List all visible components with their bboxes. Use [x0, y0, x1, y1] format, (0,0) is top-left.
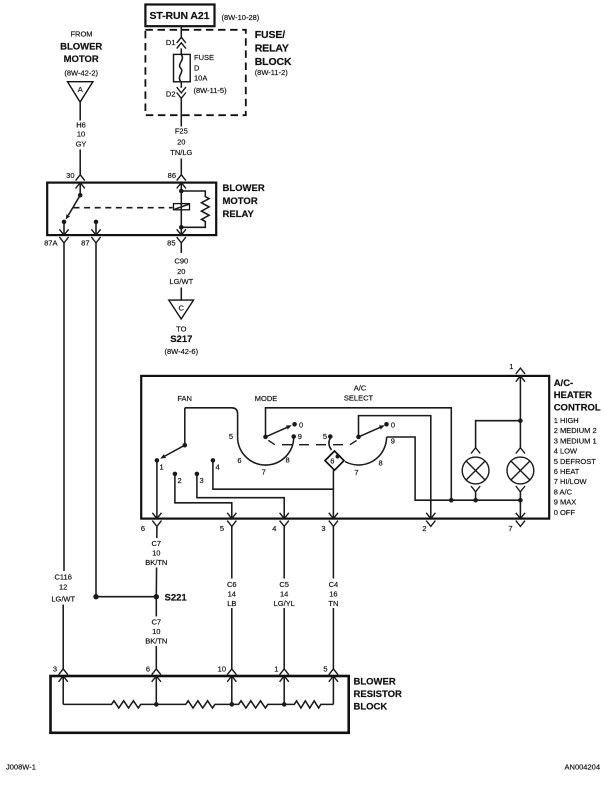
- svg-text:87: 87: [81, 238, 89, 247]
- svg-text:20: 20: [177, 137, 185, 146]
- svg-text:C6: C6: [227, 580, 237, 589]
- svg-text:0: 0: [391, 420, 395, 429]
- svg-text:AN004204: AN004204: [565, 763, 600, 772]
- svg-text:F25: F25: [175, 127, 188, 136]
- svg-text:2 MEDIUM 2: 2 MEDIUM 2: [554, 426, 597, 435]
- svg-text:LG/WT: LG/WT: [51, 594, 75, 603]
- svg-text:14: 14: [228, 590, 236, 599]
- relay pin 87A outer: [44, 237, 68, 247]
- node 86 junction: [179, 189, 184, 194]
- wire bus to pin 7: [519, 500, 521, 518]
- label C6 14 LB: [220, 579, 244, 609]
- svg-text:87A: 87A: [44, 238, 57, 247]
- resistor pin 3: [53, 664, 68, 682]
- mode arc position labels: [229, 432, 302, 476]
- select wiper blade: [359, 425, 385, 437]
- svg-text:6 HEAT: 6 HEAT: [554, 467, 580, 476]
- resistor pin 5: [323, 664, 338, 682]
- mode contact 9: [291, 434, 296, 439]
- svg-text:5: 5: [323, 432, 327, 441]
- mode wiper blade: [266, 425, 292, 437]
- svg-text:5: 5: [220, 524, 224, 533]
- svg-text:85: 85: [167, 238, 175, 247]
- wire C116 from 87A to resistor pin 3: [62, 243, 65, 669]
- svg-text:(8W-11-2): (8W-11-2): [255, 68, 289, 77]
- svg-text:7: 7: [508, 524, 512, 533]
- relay pin 85 inner chevron: [177, 229, 186, 235]
- svg-text:1: 1: [160, 462, 164, 471]
- svg-text:14: 14: [280, 590, 288, 599]
- connector A from blower motor: [68, 82, 93, 102]
- label C116 12 LG/WT: [51, 573, 75, 604]
- svg-text:BK/TN: BK/TN: [145, 637, 167, 646]
- svg-text:6: 6: [146, 664, 150, 673]
- svg-text:C7: C7: [152, 617, 162, 626]
- relay pin 87 outer: [81, 237, 100, 247]
- wire pin 30 to switch pivot: [79, 183, 81, 196]
- mode contact 0: [292, 420, 303, 429]
- svg-text:BK/TN: BK/TN: [145, 558, 167, 567]
- node 85 junction: [179, 225, 184, 230]
- splice S221: [93, 592, 187, 603]
- blower resistor block box: [51, 676, 349, 733]
- a/c-heater control box: [141, 376, 549, 519]
- svg-text:BLOWER: BLOWER: [354, 676, 396, 687]
- wire coil to pin 85: [180, 191, 182, 235]
- svg-text:12: 12: [59, 583, 67, 592]
- wire 85 to S217: [180, 243, 182, 300]
- wire C4 pin 3 to resistor pin 5: [332, 526, 334, 669]
- svg-text:8: 8: [379, 459, 383, 468]
- svg-text:C116: C116: [55, 573, 72, 582]
- control pin 6: [141, 513, 162, 533]
- svg-text:8: 8: [286, 456, 290, 465]
- fan wiper riser: [184, 408, 186, 445]
- svg-text:TO: TO: [176, 325, 186, 334]
- svg-text:BLOCK: BLOCK: [255, 56, 292, 68]
- fan switch bar and mode arc: [185, 408, 294, 465]
- svg-text:RELAY: RELAY: [255, 42, 289, 54]
- svg-text:8 A/C: 8 A/C: [554, 487, 573, 496]
- svg-text:0 OFF: 0 OFF: [554, 508, 576, 517]
- svg-text:MOTOR: MOTOR: [223, 196, 258, 207]
- svg-text:(8W-42-2): (8W-42-2): [64, 69, 98, 78]
- svg-text:6: 6: [237, 456, 241, 465]
- svg-text:BLOWER: BLOWER: [60, 41, 102, 52]
- svg-text:1 HIGH: 1 HIGH: [554, 416, 579, 425]
- connector C to S217: [169, 300, 194, 319]
- label C90 20 LG/WT: [169, 257, 193, 287]
- relay pin 30: [66, 171, 85, 189]
- wire D2 to F25 label: [180, 98, 182, 126]
- fan contact 4: [211, 458, 220, 471]
- node fan pivot: [183, 443, 188, 448]
- resistor pin 10: [218, 664, 237, 682]
- wire fan contact 4 to pin 3: [213, 460, 334, 518]
- relay resistor: [181, 191, 209, 227]
- svg-text:FUSE/: FUSE/: [255, 29, 286, 41]
- wire TN/LG to relay pin 86: [180, 159, 182, 175]
- svg-text:H6: H6: [76, 121, 86, 130]
- relay switch blade: [66, 195, 81, 219]
- label TO S217 (8W-42-6): [164, 325, 198, 357]
- relay contact 87: [91, 220, 100, 236]
- label A/C SELECT: [344, 383, 374, 402]
- svg-text:(8W-42-6): (8W-42-6): [164, 347, 198, 356]
- select wiper riser to pin 2: [359, 416, 431, 519]
- svg-text:4: 4: [216, 462, 220, 471]
- svg-text:LB: LB: [227, 599, 236, 608]
- svg-text:2: 2: [422, 524, 426, 533]
- wire C5 pin 4 to resistor pin 1: [283, 526, 285, 669]
- svg-text:S221: S221: [165, 592, 188, 603]
- wire select 9 to lamp bus: [387, 437, 452, 500]
- label H6 10 GY: [76, 121, 87, 149]
- svg-text:10A: 10A: [194, 74, 207, 83]
- svg-text:HEATER: HEATER: [554, 390, 592, 401]
- svg-text:A/C: A/C: [354, 383, 367, 392]
- svg-text:0: 0: [299, 420, 303, 429]
- svg-text:86: 86: [168, 171, 176, 180]
- lamp 1: [462, 448, 489, 501]
- a/c select arc: [345, 437, 387, 465]
- svg-text:C7: C7: [152, 539, 162, 548]
- wire C6 pin 5 to resistor pin 10: [231, 526, 233, 669]
- svg-text:(8W-11-5): (8W-11-5): [194, 86, 228, 95]
- node lamp feed: [518, 418, 523, 423]
- svg-text:C4: C4: [329, 580, 339, 589]
- relay contact 87A: [59, 220, 68, 236]
- a/c select arc labels: [354, 436, 394, 477]
- svg-text:4: 4: [272, 524, 276, 533]
- wire pin 86 to coil: [180, 183, 182, 191]
- svg-text:3: 3: [321, 524, 325, 533]
- svg-text:LG/WT: LG/WT: [169, 277, 193, 286]
- relay coil dashed link: [74, 207, 173, 209]
- svg-text:9 MAX: 9 MAX: [554, 498, 577, 507]
- mode wiper riser and bus to lamps: [266, 408, 452, 500]
- svg-text:7: 7: [262, 467, 266, 476]
- svg-text:TN/LG: TN/LG: [170, 148, 192, 157]
- svg-text:RESISTOR: RESISTOR: [354, 689, 403, 700]
- wire pin 1 to lamps: [519, 376, 521, 448]
- svg-text:TN: TN: [328, 599, 338, 608]
- label BLOWER MOTOR RELAY: [223, 183, 265, 220]
- wire contact 5 to diamond: [329, 438, 332, 450]
- wire GY to relay pin 30: [79, 150, 81, 175]
- label F25 20 TN/LG: [170, 127, 192, 158]
- svg-text:C: C: [178, 304, 184, 313]
- wire fuse to D2: [180, 82, 182, 88]
- wire D1 to fuse: [180, 48, 182, 54]
- svg-text:RELAY: RELAY: [223, 209, 255, 220]
- connector D2: [166, 87, 186, 98]
- fan switch blade: [160, 445, 185, 458]
- svg-text:10: 10: [77, 130, 85, 139]
- node mode pivot: [263, 435, 268, 440]
- svg-text:BLOWER: BLOWER: [223, 183, 265, 194]
- control pin 3: [321, 513, 338, 533]
- svg-text:5: 5: [229, 432, 233, 441]
- label C4 16 TN: [321, 579, 345, 609]
- label C7 10 BK/TN lower: [143, 616, 170, 646]
- wire ST-RUN A21 to D1: [180, 26, 182, 37]
- svg-text:LG/YL: LG/YL: [274, 599, 295, 608]
- control pin 2: [422, 513, 435, 533]
- svg-text:D: D: [194, 63, 200, 72]
- svg-text:S217: S217: [170, 334, 192, 345]
- a/c select position 6 diamond: [325, 451, 344, 470]
- connector box ST-RUN A21: [145, 5, 214, 27]
- svg-text:3: 3: [53, 664, 57, 673]
- svg-text:5: 5: [323, 664, 327, 673]
- resistor pin 6: [146, 664, 161, 682]
- svg-text:1: 1: [274, 664, 278, 673]
- label BLOWER RESISTOR BLOCK: [354, 676, 403, 712]
- node select pivot: [356, 435, 361, 440]
- svg-text:3: 3: [200, 476, 204, 485]
- svg-text:C90: C90: [174, 257, 188, 266]
- svg-text:6: 6: [141, 524, 145, 533]
- wire lamp feed branch: [476, 421, 521, 448]
- node resistor junctions: [154, 702, 287, 707]
- svg-text:10: 10: [152, 627, 160, 636]
- select contact 0: [384, 420, 395, 429]
- wire fan contact 2 to pin 5: [175, 474, 232, 519]
- svg-text:FAN: FAN: [177, 394, 192, 403]
- svg-text:10: 10: [152, 549, 160, 558]
- control pin 4: [272, 513, 289, 533]
- label C5 14 LG/YL: [270, 579, 299, 609]
- wire fan contact 3 to pin 4: [197, 474, 284, 519]
- wire S221 to resistor pin 6: [155, 597, 157, 669]
- wire fan contact 1 to pin 6: [156, 460, 158, 518]
- wire diamond to pin 3 wire: [332, 470, 334, 489]
- lamp return bus: [449, 498, 523, 503]
- svg-text:MODE: MODE: [255, 394, 278, 403]
- svg-text:9: 9: [298, 432, 302, 441]
- svg-text:4 LOW: 4 LOW: [554, 447, 578, 456]
- wire C7 pin 6 to S221: [155, 526, 158, 596]
- svg-text:GY: GY: [76, 140, 87, 149]
- resistor pin 1: [274, 664, 289, 682]
- a/c select contact 5: [323, 432, 333, 441]
- svg-text:5 DEFROST: 5 DEFROST: [554, 457, 597, 466]
- svg-text:A: A: [78, 85, 83, 94]
- svg-text:FUSE: FUSE: [194, 53, 214, 62]
- svg-text:CONTROL: CONTROL: [554, 403, 601, 414]
- svg-text:C5: C5: [279, 580, 289, 589]
- svg-text:D2: D2: [166, 90, 176, 99]
- svg-text:30: 30: [66, 171, 74, 180]
- svg-text:20: 20: [177, 267, 185, 276]
- label A/C-HEATER CONTROL: [554, 378, 601, 517]
- svg-text:FROM: FROM: [70, 29, 92, 38]
- label FUSE/RELAY BLOCK (8W-11-2): [255, 29, 292, 77]
- relay coil: [174, 204, 190, 210]
- fan contact 3: [195, 472, 204, 485]
- svg-text:6: 6: [330, 456, 334, 465]
- svg-text:2: 2: [178, 476, 182, 485]
- wire 87 to splice S221: [95, 243, 97, 597]
- blower motor relay box: [47, 183, 216, 236]
- fuse/relay block dashed box: [145, 30, 245, 115]
- label FROM BLOWER MOTOR (8W-42-2): [60, 29, 102, 77]
- svg-text:10: 10: [218, 664, 226, 673]
- svg-text:ST-RUN A21: ST-RUN A21: [150, 10, 210, 22]
- relay pin 86: [168, 171, 186, 189]
- fuse D 10A: [174, 54, 191, 81]
- label C7 10 BK/TN upper: [143, 538, 170, 568]
- relay pin 85 outer: [167, 237, 186, 247]
- svg-text:7: 7: [354, 468, 358, 477]
- resistor chain R1-R4: [63, 701, 333, 708]
- svg-text:3 MEDIUM 1: 3 MEDIUM 1: [554, 436, 597, 445]
- label FUSE D 10A (8W-11-5): [194, 53, 228, 95]
- svg-text:SELECT: SELECT: [344, 394, 374, 403]
- mechanical coupling dashes: [268, 440, 356, 444]
- control pin 1: [509, 362, 525, 382]
- control pin 7: [508, 513, 525, 533]
- svg-text:(8W-10-28): (8W-10-28): [222, 13, 260, 22]
- svg-text:J008W-1: J008W-1: [6, 763, 36, 772]
- svg-text:16: 16: [329, 590, 337, 599]
- svg-text:1: 1: [509, 362, 513, 371]
- svg-text:D1: D1: [166, 38, 176, 47]
- svg-text:BLOCK: BLOCK: [354, 702, 388, 713]
- node switch pivot: [78, 193, 83, 198]
- control pin 5: [220, 513, 237, 533]
- wire A to H6 label: [79, 102, 81, 121]
- connector D1: [166, 37, 186, 48]
- resistor block stubs: [63, 676, 333, 704]
- fan contact 2: [173, 472, 182, 485]
- fan contact 1: [155, 458, 164, 471]
- svg-text:A/C-: A/C-: [554, 378, 574, 389]
- svg-text:MOTOR: MOTOR: [64, 54, 99, 65]
- svg-text:7 HI/LOW: 7 HI/LOW: [554, 477, 588, 486]
- lamp 2: [507, 448, 534, 501]
